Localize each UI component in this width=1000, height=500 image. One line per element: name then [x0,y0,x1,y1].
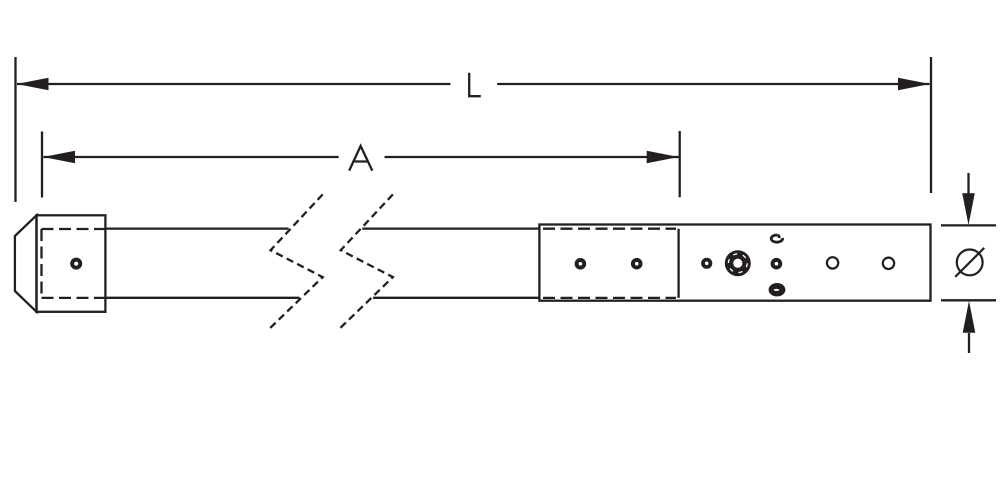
dimension A: line right segment [385,156,679,158]
tube top edge, right of break [362,227,539,229]
flanged grommet hole [725,250,751,276]
rivet hole 2 in overlap [631,258,643,270]
hidden tube inside cap: dashed bottom edge [42,297,106,299]
dimension L: right arrowhead [898,78,930,91]
slotted button (filled oval) [769,283,786,296]
hidden inner tube in sleeve: dashed top edge [543,228,676,230]
dimension A: left extension line [41,132,43,198]
dimension L: line right segment [497,83,929,85]
dimension L: label L [469,73,481,96]
hidden inner tube in sleeve: dashed bottom edge [543,297,676,299]
dimension A: label A [349,146,372,171]
dimension A: left arrowhead [43,151,75,164]
rivet hole 4 [771,258,783,270]
rivet hole 1 in overlap [575,258,587,270]
outer sleeve rectangle [539,225,930,301]
diameter dim: top arrow stem [967,173,969,196]
dimension A: right arrowhead [647,151,679,164]
dimension L: right extension line [930,57,932,193]
rivet hole 3 [701,258,712,269]
tube top edge, left of break [105,227,288,229]
inner tube end line [677,229,679,298]
break line zigzag 2 [339,194,393,329]
tube bottom edge, right of break [373,297,539,299]
end cap body rectangle [37,215,106,311]
diameter symbol slash [955,248,984,277]
open hole 2 [883,258,894,269]
diameter dim: bottom extension line [941,299,996,301]
tube bottom edge, left of break [105,297,299,299]
dimension A: right extension line [679,131,681,197]
break line zigzag 1 [269,194,323,329]
diameter dim: top extension line [941,224,996,226]
dimension L: left arrowhead [17,78,49,91]
diameter dim: bottom arrowhead [963,301,976,333]
dimension L: line left segment [17,83,450,85]
diameter dim: bottom arrow stem [968,333,970,353]
diameter symbol circle [957,250,983,276]
dimension A: line left segment [44,156,339,158]
hidden tube inside cap: dashed top edge [42,228,106,230]
open hole 1 [827,257,838,268]
end cap bevel (left trapezoid) [15,215,37,311]
cap rivet hole [70,258,82,270]
hidden tube inside cap: dashed left edge [40,229,42,298]
dimension L: left extension line [14,57,16,202]
spring clip tab [771,235,782,242]
diameter dim: top arrowhead [962,193,975,225]
